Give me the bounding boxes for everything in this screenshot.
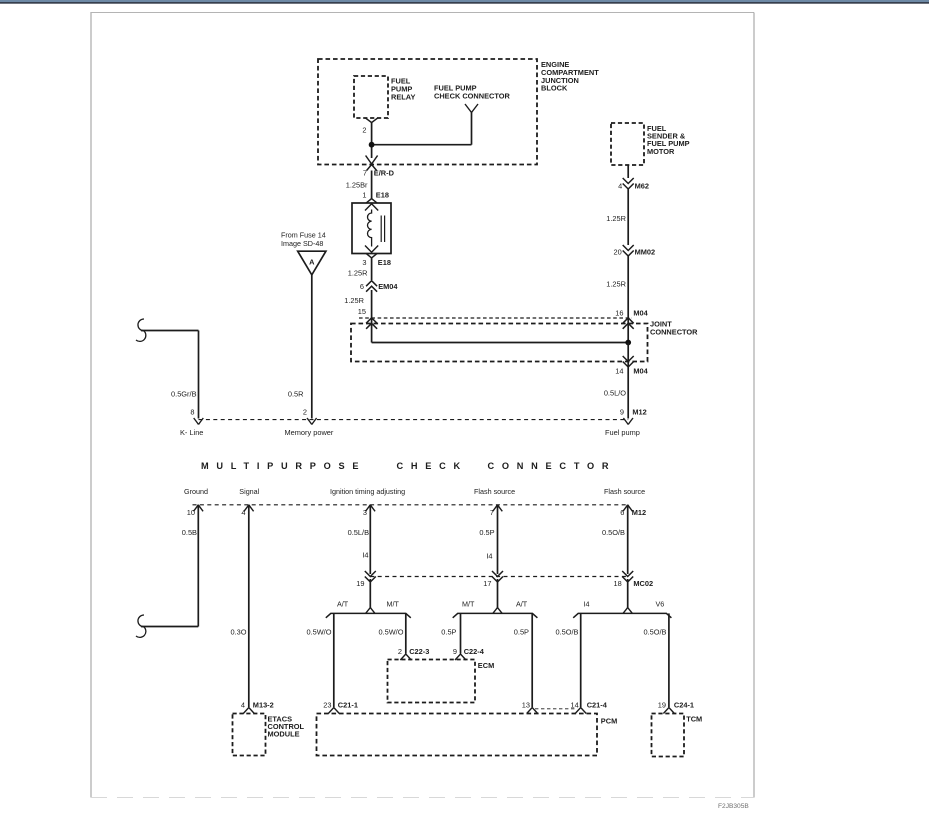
K-line exit arrow (194, 418, 199, 425)
svg-text:A/T: A/T (516, 600, 528, 609)
wire M04 to M12 (fuel pump) (627, 343, 629, 419)
svg-text:Ignition timing adjusting: Ignition timing adjusting (330, 487, 405, 496)
connector MM02 chevrons (623, 245, 634, 251)
svg-text:19: 19 (356, 579, 364, 588)
pin 6 arrow (623, 505, 628, 512)
svg-text:M12: M12 (632, 508, 646, 517)
wire M62 to MM02 (627, 189, 629, 245)
svg-text:E/R-D: E/R-D (374, 169, 395, 178)
ECM entry feet (9) (455, 654, 466, 660)
joint connector upper dashed line (359, 317, 632, 319)
svg-text:C24-1: C24-1 (674, 701, 694, 710)
svg-text:19: 19 (658, 701, 666, 710)
svg-text:9: 9 (453, 647, 457, 656)
junction dot (369, 142, 375, 148)
svg-text:A/T: A/T (337, 600, 349, 609)
svg-text:0.5L/B: 0.5L/B (348, 528, 369, 537)
split bar A/T-M/T (326, 613, 411, 617)
svg-text:RELAY: RELAY (391, 92, 415, 101)
svg-text:Fuel pump: Fuel pump (605, 428, 640, 437)
svg-text:13: 13 (522, 701, 530, 710)
relay pin 2 chevron (366, 118, 378, 123)
fuel pump check connector stub (465, 104, 478, 113)
svg-text:CONNECTOR: CONNECTOR (488, 461, 617, 471)
wire I4 branch to PCM pin 14 (580, 613, 582, 707)
svg-text:E18: E18 (378, 258, 391, 267)
svg-text:3: 3 (362, 258, 366, 267)
pin 3 arrow (366, 505, 371, 512)
PCM entry feet (23) (328, 708, 339, 714)
svg-text:M/T: M/T (462, 600, 475, 609)
K-line break hook (136, 319, 146, 341)
ECM box (dashed) (388, 660, 476, 703)
svg-text:CONNECTOR: CONNECTOR (650, 327, 698, 336)
svg-text:0.5O/B: 0.5O/B (555, 628, 578, 637)
MC02 dashed line (370, 576, 627, 578)
wire E/R-D to E18 (371, 171, 373, 199)
svg-text:BLOCK: BLOCK (541, 84, 568, 93)
wire ground vertical (197, 505, 199, 627)
svg-text:MODULE: MODULE (268, 730, 300, 739)
svg-text:C21-4: C21-4 (587, 701, 608, 710)
svg-text:Memory power: Memory power (285, 428, 334, 437)
pin 7 arrow (493, 505, 498, 512)
svg-text:ECM: ECM (478, 661, 494, 670)
svg-text:M04: M04 (633, 309, 648, 318)
svg-text:2: 2 (362, 125, 366, 134)
TCM box (dashed) (652, 714, 685, 757)
svg-text:V6: V6 (656, 600, 665, 609)
wire ground horizontal (141, 626, 198, 628)
connector 14 M04 exit chevrons (623, 356, 634, 362)
connector M62 chevrons (623, 178, 634, 184)
13-14 link dashed line (535, 708, 577, 710)
svg-text:M12: M12 (632, 408, 646, 417)
wire M/T branch to ECM pin 9 (460, 613, 462, 653)
svg-text:M04: M04 (633, 367, 648, 376)
wire K-line vertical (198, 331, 200, 419)
wire V6 branch to TCM (668, 613, 670, 707)
solenoid entry cup (366, 199, 377, 204)
svg-text:1: 1 (362, 191, 366, 200)
connector EM04 chevrons (366, 281, 377, 287)
joint connector box (dashed) (351, 324, 648, 362)
svg-text:0.5W/O: 0.5W/O (378, 628, 403, 637)
wire flash2 lower (627, 579, 629, 608)
fuel cut solenoid box (352, 203, 391, 254)
wire ignition timing lower (369, 579, 371, 608)
svg-text:0.5Gr/B: 0.5Gr/B (171, 390, 197, 399)
svg-text:7: 7 (363, 169, 367, 178)
svg-text:0.5P: 0.5P (514, 628, 529, 637)
pin 4 arrow (244, 505, 249, 512)
svg-text:E18: E18 (376, 191, 389, 200)
ETACS control module box (dashed) (233, 714, 266, 756)
PCM entry feet (14) (575, 708, 586, 714)
svg-text:I4: I4 (584, 600, 590, 609)
svg-text:A: A (309, 258, 315, 267)
junction block box (dashed) (318, 59, 537, 165)
solenoid core lines (380, 216, 382, 243)
memory power exit arrow (307, 418, 312, 425)
page border frame (90, 12, 92, 798)
check connector dashed line (193, 504, 628, 506)
svg-text:9: 9 (620, 408, 624, 417)
connector 19 chevrons (365, 571, 376, 577)
svg-text:6: 6 (620, 508, 624, 517)
svg-text:MM02: MM02 (635, 248, 656, 257)
svg-text:0.5L/O: 0.5L/O (604, 389, 626, 398)
wire check connector to junction dot (372, 144, 472, 146)
svg-text:C22-4: C22-4 (464, 647, 485, 656)
joint connector junction dot (625, 340, 631, 346)
connector 18 chevrons (622, 571, 633, 577)
wire A/T branch to PCM pin 13 (531, 613, 533, 707)
PCM entry feet (13) (527, 708, 538, 714)
svg-text:7: 7 (490, 508, 494, 517)
svg-text:0.5B: 0.5B (182, 528, 197, 537)
svg-text:0.5O/B: 0.5O/B (643, 628, 666, 637)
svg-text:0.3O: 0.3O (230, 628, 246, 637)
svg-text:15: 15 (358, 307, 366, 316)
svg-text:Flash source: Flash source (474, 487, 515, 496)
svg-text:17: 17 (483, 579, 491, 588)
svg-text:Flash source: Flash source (604, 487, 645, 496)
svg-text:M/T: M/T (387, 600, 400, 609)
svg-text:MC02: MC02 (633, 579, 653, 588)
wire flash1 lower (497, 579, 499, 608)
connector 7 E/R-D boundary symbol (366, 156, 378, 165)
svg-text:1.25R: 1.25R (606, 214, 626, 223)
wire signal (248, 505, 250, 707)
svg-text:1.25R: 1.25R (344, 296, 364, 305)
svg-text:23: 23 (323, 701, 331, 710)
svg-text:0.5O/B: 0.5O/B (602, 528, 625, 537)
ground break hook (136, 615, 146, 637)
wire fuel sender to M62 (627, 165, 629, 178)
solenoid internal arrow bottom (365, 246, 378, 253)
wire A/T branch to PCM (333, 613, 335, 707)
svg-text:Ground: Ground (184, 487, 208, 496)
svg-text:3: 3 (363, 508, 367, 517)
svg-text:0.5P: 0.5P (479, 528, 494, 537)
svg-text:M13-2: M13-2 (253, 701, 274, 710)
split bar I4-V6 (573, 613, 671, 617)
wire M/T branch to ECM (405, 613, 407, 653)
svg-text:C22-3: C22-3 (409, 647, 429, 656)
svg-text:0.5R: 0.5R (288, 390, 304, 399)
ECM entry feet (2) (400, 654, 411, 660)
svg-text:CHECK CONNECTOR: CHECK CONNECTOR (434, 91, 510, 100)
svg-text:4: 4 (241, 508, 245, 517)
wire memory power (311, 275, 313, 419)
ETACS entry feet (243, 708, 254, 714)
svg-text:Image SD-48: Image SD-48 (281, 239, 323, 248)
wire MM02 to M04 (627, 256, 629, 343)
svg-text:0.5P: 0.5P (441, 628, 456, 637)
svg-text:M62: M62 (635, 181, 649, 190)
top browser edge bar (0, 0, 929, 2)
svg-text:MOTOR: MOTOR (647, 147, 675, 156)
wire flash2 upper (627, 505, 629, 574)
solenoid internal arrow top (365, 204, 378, 211)
svg-text:I4: I4 (362, 551, 368, 560)
wire flash1 upper (497, 505, 499, 574)
svg-text:2: 2 (398, 647, 402, 656)
solenoid exit cup (366, 253, 377, 258)
svg-text:F2JB305B: F2JB305B (718, 803, 749, 810)
svg-text:MULTIPURPOSE: MULTIPURPOSE (201, 461, 366, 471)
connector 17 chevrons (492, 571, 503, 577)
svg-text:C21-1: C21-1 (338, 701, 358, 710)
svg-text:1.25R: 1.25R (348, 269, 368, 278)
svg-text:18: 18 (613, 579, 621, 588)
svg-text:I4: I4 (486, 552, 492, 561)
svg-text:4: 4 (241, 701, 245, 710)
wire K-line horizontal (141, 330, 199, 332)
wire ignition timing upper (369, 505, 371, 574)
TCM entry feet (19) (663, 708, 674, 714)
svg-text:14: 14 (570, 701, 578, 710)
fuel sender box (dashed) (611, 123, 644, 165)
wire E18 to EM04 (371, 258, 373, 280)
svg-text:6: 6 (360, 282, 364, 291)
wire relay to junction dot (371, 123, 373, 159)
PCM box (dashed) (317, 714, 598, 756)
svg-text:2: 2 (303, 408, 307, 417)
fuel pump exit arrow (623, 418, 628, 425)
connector 16 chevrons (623, 318, 634, 324)
svg-text:EM04: EM04 (378, 282, 398, 291)
svg-text:Signal: Signal (239, 487, 259, 496)
svg-text:8: 8 (190, 408, 194, 417)
split bar M/T-A/T (453, 613, 538, 617)
triangle A (from fuse 14) (298, 251, 326, 275)
svg-text:PCM: PCM (601, 717, 617, 726)
pin 10 arrow (194, 505, 199, 512)
row dashed line (M12 connector) (199, 419, 629, 421)
svg-text:16: 16 (615, 309, 623, 318)
wire EM04 to joint connector (371, 290, 373, 343)
svg-text:4: 4 (618, 181, 622, 190)
fuel pump relay box (dashed) (354, 76, 388, 118)
svg-text:0.5W/O: 0.5W/O (306, 628, 331, 637)
svg-text:14: 14 (615, 367, 623, 376)
svg-text:1.25R: 1.25R (606, 280, 626, 289)
svg-text:TCM: TCM (686, 715, 702, 724)
connector 15 chevrons (366, 318, 377, 324)
solenoid coil (367, 210, 371, 247)
joint connector internal wire (372, 342, 629, 344)
svg-text:1.25Br: 1.25Br (346, 181, 368, 190)
svg-text:10: 10 (187, 508, 195, 517)
svg-text:20: 20 (613, 248, 621, 257)
svg-text:CHECK: CHECK (397, 461, 468, 471)
svg-text:K- Line: K- Line (180, 428, 203, 437)
